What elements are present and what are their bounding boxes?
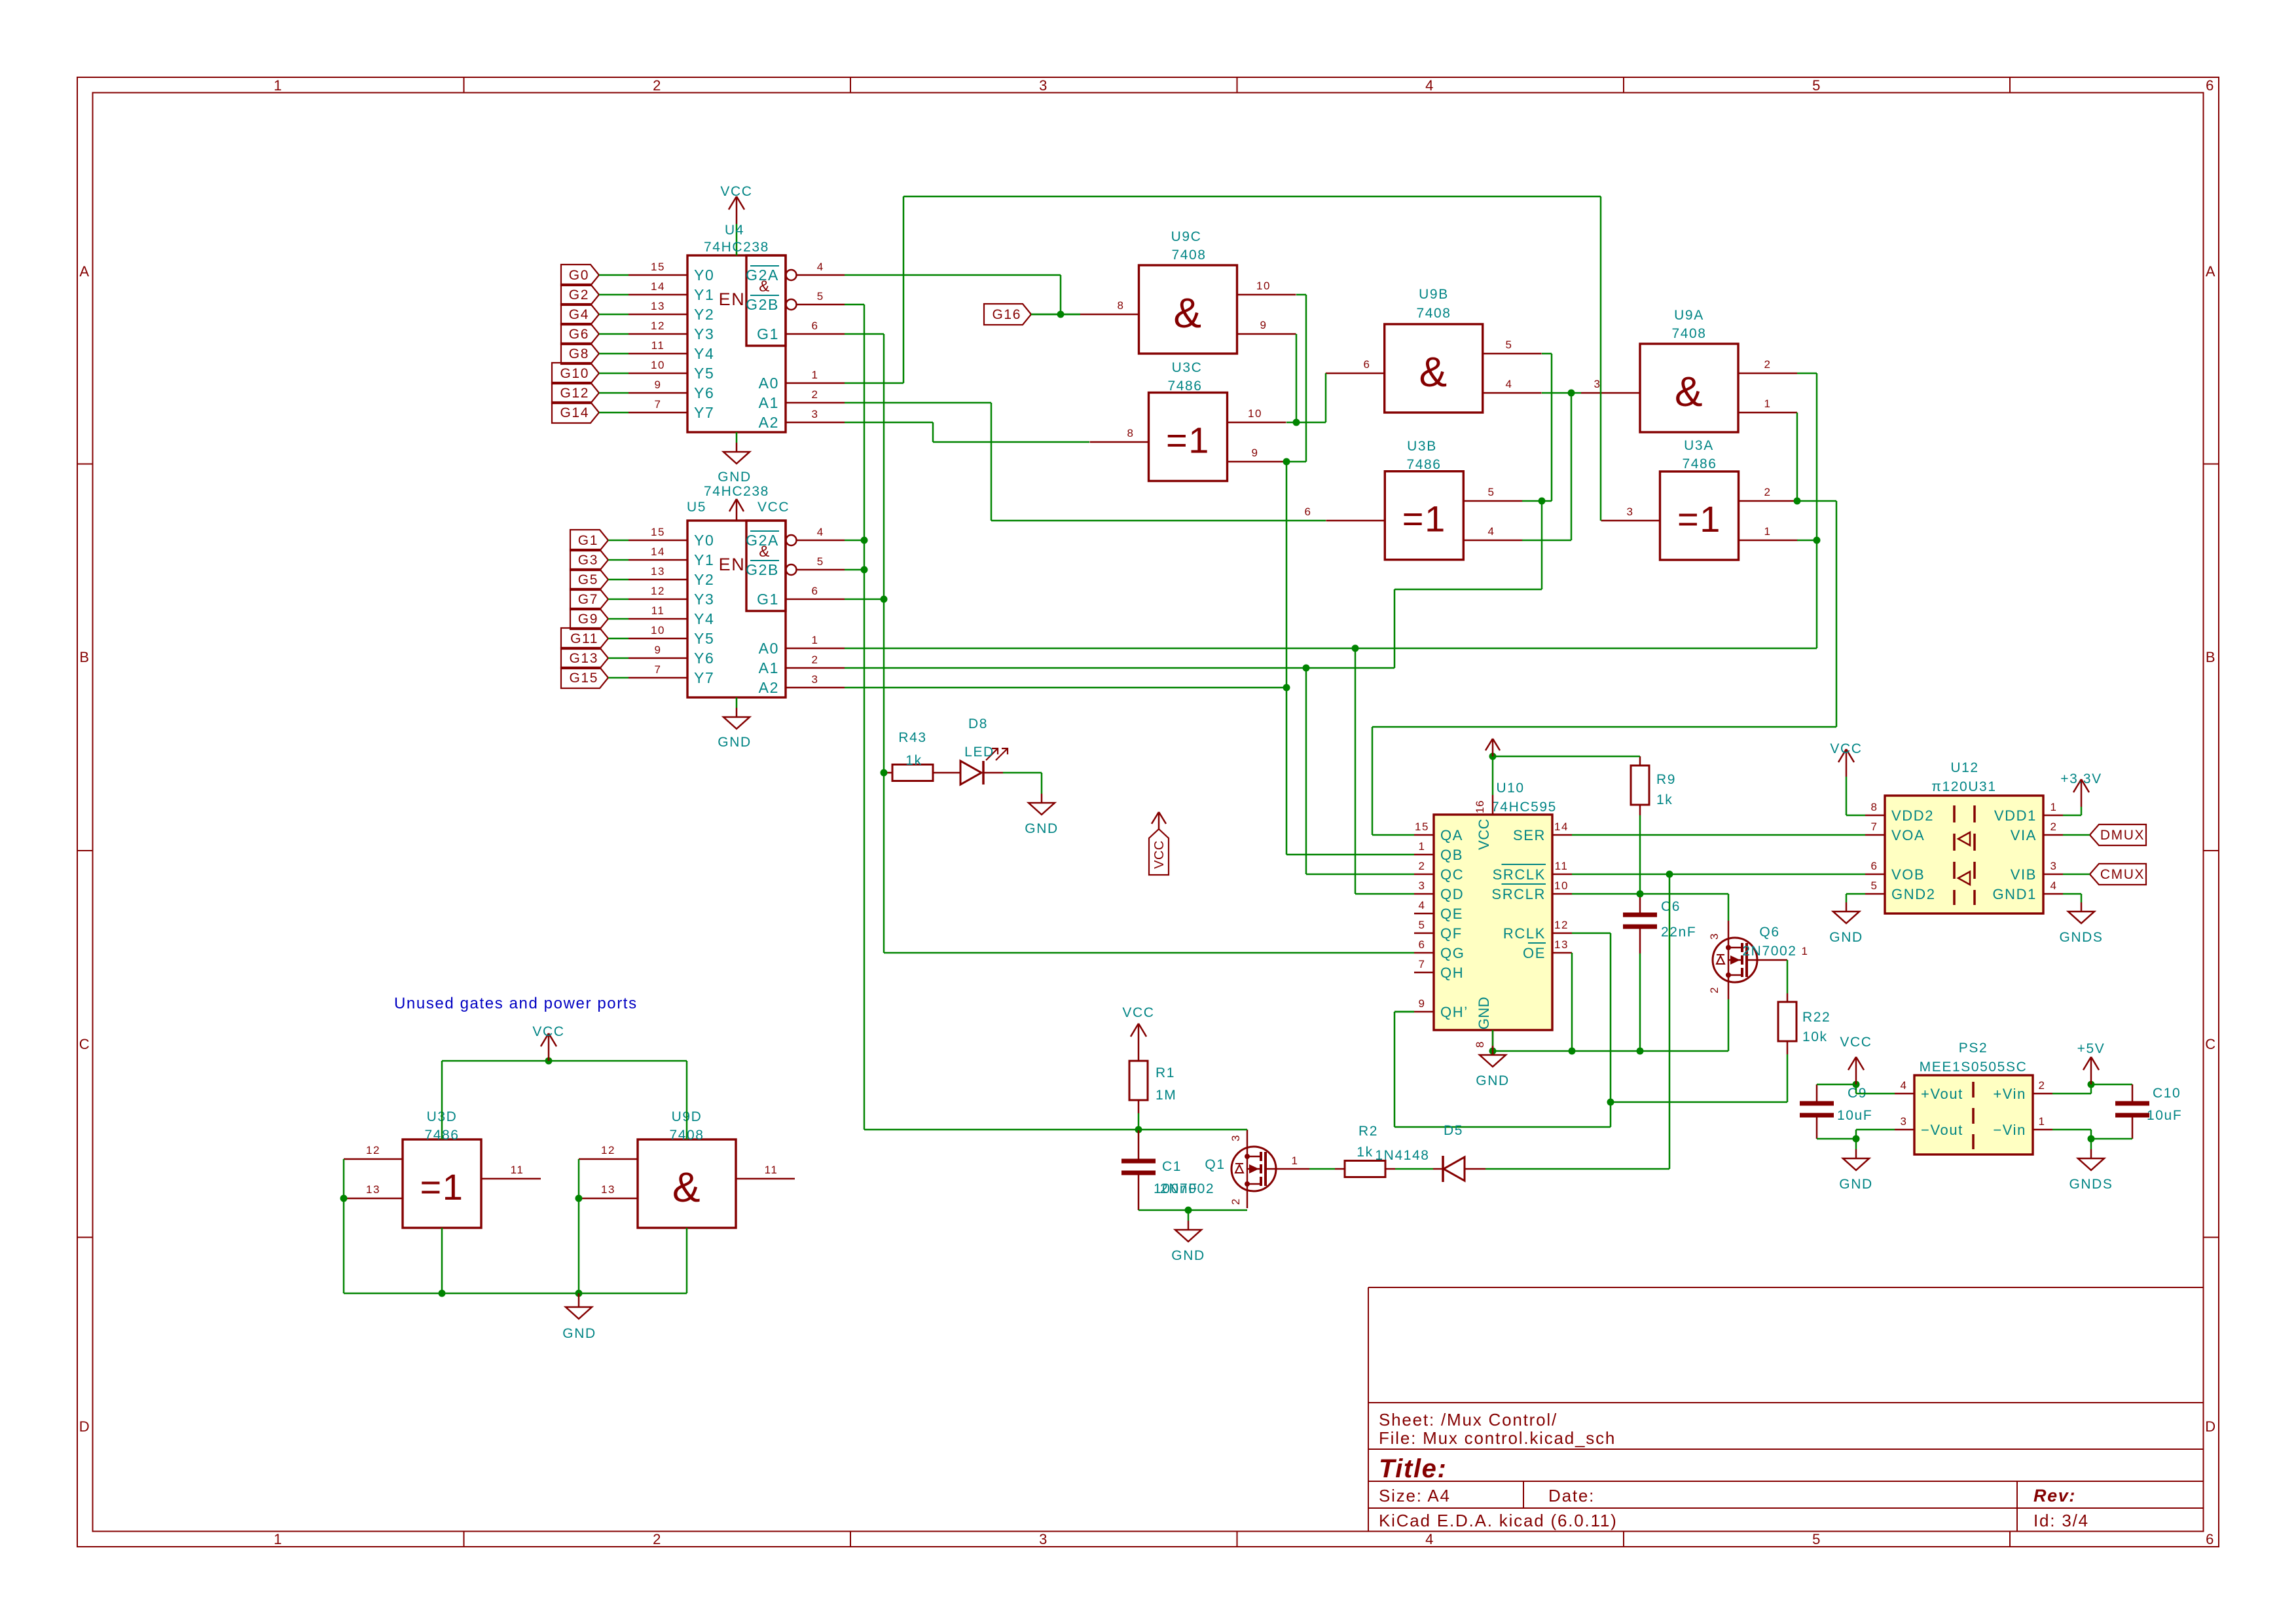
svg-text:EN: EN <box>719 289 746 309</box>
svg-text:4: 4 <box>1418 899 1425 912</box>
svg-text:Y6: Y6 <box>694 384 714 401</box>
svg-text:2: 2 <box>2050 821 2057 833</box>
svg-text:GND: GND <box>1829 930 1863 945</box>
svg-text:C6: C6 <box>1661 899 1681 914</box>
svg-text:G8: G8 <box>569 346 589 361</box>
svg-text:9: 9 <box>1251 447 1258 459</box>
svg-text:6: 6 <box>2206 1531 2215 1547</box>
svg-text:13: 13 <box>601 1183 615 1196</box>
svg-text:16: 16 <box>1474 800 1486 813</box>
wire U4.A2 to U3C.8 <box>845 422 933 424</box>
svg-text:9: 9 <box>654 378 661 391</box>
svg-text:2N7002: 2N7002 <box>1160 1181 1214 1196</box>
gate U9A 7408 <box>1640 344 1738 432</box>
wire <box>2052 1093 2091 1095</box>
ground GND unused gates <box>578 1293 580 1307</box>
wire <box>1817 1138 1856 1140</box>
svg-text:=1: =1 <box>1402 498 1446 540</box>
svg-text:10k: 10k <box>1802 1029 1828 1044</box>
svg-text:Y2: Y2 <box>694 571 714 588</box>
svg-text:G16: G16 <box>993 307 1022 322</box>
power VCC at U4 <box>736 224 738 255</box>
svg-text:4: 4 <box>2050 879 2057 892</box>
svg-text:G11: G11 <box>570 631 598 646</box>
svg-text:SRCLR: SRCLR <box>1491 886 1546 902</box>
svg-text:−Vin: −Vin <box>1993 1122 2026 1138</box>
svg-text:QH’: QH’ <box>1440 1004 1468 1020</box>
svg-text:VCC: VCC <box>720 184 752 199</box>
ground GND at C1/Q1 <box>1188 1210 1190 1221</box>
svg-text:QG: QG <box>1440 945 1465 961</box>
svg-text:9: 9 <box>654 644 661 656</box>
svg-text:1: 1 <box>1418 840 1425 853</box>
svg-text:VOA: VOA <box>1891 827 1925 843</box>
svg-text:6: 6 <box>811 320 818 332</box>
svg-text:U9B: U9B <box>1419 287 1449 302</box>
svg-text:GND: GND <box>1171 1248 1205 1263</box>
svg-text:4: 4 <box>817 526 824 538</box>
svg-text:U3A: U3A <box>1684 438 1714 453</box>
svg-text:2: 2 <box>1418 860 1425 872</box>
svg-text:A: A <box>79 263 90 280</box>
svg-text:G12: G12 <box>560 386 590 401</box>
svg-text:12: 12 <box>601 1144 615 1156</box>
svg-text:&: & <box>1675 368 1704 415</box>
svg-text:2N7002: 2N7002 <box>1742 944 1796 959</box>
svg-text:10: 10 <box>651 624 665 637</box>
svg-text:22nF: 22nF <box>1661 925 1696 940</box>
svg-text:R1: R1 <box>1156 1065 1175 1080</box>
wire U3D inputs tied <box>343 1159 345 1293</box>
svg-text:74HC238: 74HC238 <box>704 484 769 499</box>
svg-text:G15: G15 <box>570 671 599 686</box>
svg-text:GND1: GND1 <box>1992 886 2037 902</box>
svg-text:4: 4 <box>1425 77 1434 94</box>
global label CMUX <box>2090 864 2146 885</box>
svg-text:6: 6 <box>1870 860 1878 872</box>
global label DMUX <box>2090 824 2146 845</box>
svg-text:A2: A2 <box>759 679 779 696</box>
wire U4.G2A to G16/U9C.8 <box>845 274 1061 276</box>
svg-text:8: 8 <box>1474 1041 1486 1048</box>
svg-text:2: 2 <box>653 1531 662 1547</box>
svg-text:G9: G9 <box>578 612 598 627</box>
resistor R43 <box>892 765 933 781</box>
svg-text:Y0: Y0 <box>694 532 714 549</box>
svg-text:+3.3V: +3.3V <box>2060 771 2102 786</box>
svg-text:Y5: Y5 <box>694 630 714 647</box>
svg-text:QE: QE <box>1440 906 1463 922</box>
svg-text:D8: D8 <box>968 716 988 731</box>
svg-text:VCC: VCC <box>757 500 790 515</box>
svg-text:G3: G3 <box>578 553 598 568</box>
svg-text:13: 13 <box>651 300 665 312</box>
svg-text:+Vin: +Vin <box>1993 1086 2026 1102</box>
svg-text:1: 1 <box>1764 525 1771 538</box>
svg-text:Y5: Y5 <box>694 365 714 382</box>
svg-text:MEE1S0505SC: MEE1S0505SC <box>1920 1060 2028 1075</box>
svg-text:5: 5 <box>1487 486 1495 498</box>
svg-text:3: 3 <box>811 673 818 686</box>
wire U3C.9/U9C.10 riser to QB <box>1286 462 1288 855</box>
svg-text:1k: 1k <box>905 753 922 768</box>
hierarchical labels G1-G15 <box>570 530 608 551</box>
wire U3C.10 to U9B.6 <box>1286 422 1296 424</box>
svg-text:G14: G14 <box>560 405 590 420</box>
gate U3B 7486 <box>1385 471 1463 560</box>
svg-text:&: & <box>1173 289 1202 337</box>
wire VCC rail unused gates <box>442 1060 687 1062</box>
svg-text:VCC: VCC <box>1476 819 1492 850</box>
svg-text:Y3: Y3 <box>694 591 714 608</box>
wire U5.G2B stub <box>845 569 864 571</box>
svg-text:U10: U10 <box>1496 781 1524 796</box>
svg-text:5: 5 <box>1870 879 1878 892</box>
wire U4.A0 long top route to U3A.3 <box>845 382 903 384</box>
svg-text:G1: G1 <box>578 533 598 548</box>
svg-text:G13: G13 <box>570 651 599 666</box>
svg-text:13: 13 <box>1554 938 1569 951</box>
svg-text:&: & <box>1419 348 1448 396</box>
svg-text:QD: QD <box>1440 886 1464 902</box>
svg-text:3: 3 <box>1626 506 1633 518</box>
wire RCLK to junction <box>1572 932 1611 934</box>
svg-text:A: A <box>2206 263 2216 280</box>
svg-text:KiCad E.D.A. kicad (6.0.11): KiCad E.D.A. kicad (6.0.11) <box>1379 1511 1618 1530</box>
svg-text:G2: G2 <box>569 287 589 303</box>
power VCC for U12 <box>1846 815 1865 817</box>
diode D5 1N4148 <box>1442 1156 1444 1182</box>
svg-text:14: 14 <box>651 545 665 558</box>
power VCC at U5 (short) <box>736 499 738 521</box>
svg-text:6: 6 <box>1304 506 1311 518</box>
wire QD riser <box>1355 648 1357 894</box>
svg-text:1N4148: 1N4148 <box>1375 1148 1429 1163</box>
svg-text:Y7: Y7 <box>694 669 714 686</box>
svg-text:7486: 7486 <box>1406 457 1441 472</box>
svg-text:9: 9 <box>1260 319 1267 331</box>
power VCC unused <box>548 1033 550 1061</box>
svg-text:11: 11 <box>511 1164 524 1176</box>
svg-text:8: 8 <box>1117 299 1124 312</box>
svg-text:10: 10 <box>651 359 665 371</box>
svg-text:LED: LED <box>964 745 994 760</box>
svg-text:&: & <box>759 278 771 295</box>
svg-text:Q1: Q1 <box>1205 1157 1225 1172</box>
resistor R9 <box>1631 766 1649 805</box>
svg-text:B: B <box>79 649 90 665</box>
svg-text:2: 2 <box>1230 1198 1242 1205</box>
wire <box>1817 1084 1856 1086</box>
gate U9B 7408 <box>1385 324 1483 413</box>
svg-text:C1: C1 <box>1162 1159 1182 1174</box>
svg-text:6: 6 <box>1418 938 1425 951</box>
svg-text:1k: 1k <box>1656 792 1673 807</box>
svg-text:GND: GND <box>1839 1177 1872 1192</box>
wire SER row U10 to U12.VOA <box>1572 834 1865 836</box>
svg-text:OE: OE <box>1523 945 1546 961</box>
svg-text:74HC238: 74HC238 <box>704 240 769 255</box>
svg-text:6: 6 <box>1363 358 1370 371</box>
svg-text:Sheet: /Mux Control/: Sheet: /Mux Control/ <box>1379 1410 1558 1430</box>
power VCC at PS2 <box>1855 1057 1857 1084</box>
svg-text:7486: 7486 <box>1682 456 1717 471</box>
svg-text:4: 4 <box>1425 1531 1434 1547</box>
svg-text:5: 5 <box>817 290 824 303</box>
svg-text:EN: EN <box>719 555 746 574</box>
svg-text:D: D <box>79 1418 91 1435</box>
svg-text:VDD1: VDD1 <box>1994 807 2037 824</box>
svg-text:Title:: Title: <box>1379 1454 1447 1483</box>
svg-text:R43: R43 <box>898 730 926 745</box>
svg-text:11: 11 <box>651 604 665 617</box>
svg-text:SER: SER <box>1513 827 1546 843</box>
svg-text:6: 6 <box>2206 77 2215 94</box>
svg-text:A2: A2 <box>759 414 779 431</box>
svg-text:SRCLK: SRCLK <box>1493 866 1546 883</box>
svg-text:C10: C10 <box>2153 1086 2181 1101</box>
svg-text:7: 7 <box>654 663 661 676</box>
svg-text:C: C <box>2205 1036 2217 1052</box>
wire <box>1728 894 1730 921</box>
svg-text:GNDS: GNDS <box>2069 1177 2113 1192</box>
svg-text:2: 2 <box>2038 1079 2045 1092</box>
wire U10 VCC pin16 to R9 top <box>1492 756 1494 795</box>
svg-text:File: Mux control.kicad_sch: File: Mux control.kicad_sch <box>1379 1428 1616 1448</box>
wire U5.A0 row 990 to U3A.1 <box>845 648 1817 650</box>
wire GND row under U10 <box>1493 1050 1728 1052</box>
wire U4.G2B down (net to U5.G2A/G2B, R1, Q1 drain) <box>845 304 864 306</box>
svg-text:13: 13 <box>366 1183 380 1196</box>
wire U9B.5 to U3B.5 <box>1542 353 1552 355</box>
svg-text:1: 1 <box>811 369 818 381</box>
wire U4.G1 down to U5.G1, R43, QG <box>845 333 884 335</box>
svg-text:Q6: Q6 <box>1759 925 1779 940</box>
svg-text:G0: G0 <box>569 268 589 283</box>
global label VCC with power arrow <box>1149 829 1169 875</box>
svg-text:G7: G7 <box>578 592 598 607</box>
svg-text:1: 1 <box>2050 801 2057 813</box>
wire SRCLK row to U12.VOB <box>1572 874 1865 876</box>
svg-text:GND: GND <box>718 470 751 485</box>
wire U5.G1 stub <box>845 599 884 600</box>
svg-text:3: 3 <box>811 408 818 420</box>
svg-text:−Vout: −Vout <box>1921 1122 1963 1138</box>
svg-text:10uF: 10uF <box>2147 1108 2182 1123</box>
svg-text:1: 1 <box>1801 945 1808 957</box>
ground GNDS (GND1) <box>2063 893 2081 895</box>
svg-text:3: 3 <box>1039 1531 1048 1547</box>
wire QH prime <box>1394 1011 1414 1013</box>
svg-text:5: 5 <box>817 555 824 568</box>
svg-text:11: 11 <box>651 339 665 352</box>
svg-text:3: 3 <box>1418 879 1425 892</box>
svg-text:VCC: VCC <box>1152 840 1167 869</box>
wire U9C.10 to U3C.9 <box>1296 294 1306 296</box>
svg-text:14: 14 <box>1554 821 1569 833</box>
svg-text:5: 5 <box>1505 339 1512 351</box>
svg-text:5: 5 <box>1418 919 1425 931</box>
svg-text:2: 2 <box>811 388 818 401</box>
svg-text:Unused gates and power ports: Unused gates and power ports <box>394 995 638 1012</box>
svg-text:U12: U12 <box>1950 760 1978 775</box>
svg-text:2: 2 <box>1764 486 1771 498</box>
wire <box>1395 1168 1433 1170</box>
svg-text:VOB: VOB <box>1891 866 1925 883</box>
gate U3D 7486 <box>403 1139 481 1228</box>
svg-text:15: 15 <box>651 261 665 273</box>
svg-text:=1: =1 <box>420 1166 464 1208</box>
svg-text:VCC: VCC <box>1840 1035 1872 1050</box>
svg-text:2: 2 <box>653 77 662 94</box>
svg-text:1: 1 <box>2038 1115 2045 1128</box>
IC U4 74HC238 <box>687 255 786 432</box>
ground GND at U10 <box>1492 1046 1494 1055</box>
wire <box>2052 1129 2091 1131</box>
IC U12 isolator <box>1885 796 2043 913</box>
capacitor C9 <box>1800 1101 1834 1106</box>
svg-text:G2B: G2B <box>746 296 779 313</box>
transistor Q6 2N7002 <box>1713 938 1757 982</box>
svg-text:VIA: VIA <box>2011 827 2037 843</box>
svg-text:QH: QH <box>1440 965 1464 981</box>
svg-text:Y7: Y7 <box>694 404 714 421</box>
svg-text:GND: GND <box>1476 1073 1509 1088</box>
wire <box>1003 772 1042 774</box>
svg-text:PS2: PS2 <box>1959 1041 1988 1056</box>
svg-text:1: 1 <box>1764 397 1771 410</box>
svg-text:=1: =1 <box>1677 498 1721 540</box>
svg-text:7408: 7408 <box>1671 326 1706 341</box>
svg-text:14: 14 <box>651 280 665 293</box>
svg-text:1: 1 <box>274 77 283 94</box>
svg-text:3: 3 <box>1039 77 1048 94</box>
svg-text:GND: GND <box>1025 821 1058 836</box>
svg-text:GND: GND <box>562 1326 596 1341</box>
svg-text:Id: 3/4: Id: 3/4 <box>2033 1511 2089 1530</box>
svg-text:VCC: VCC <box>532 1024 564 1039</box>
svg-text:2: 2 <box>1708 987 1721 993</box>
svg-text:10: 10 <box>1248 407 1262 420</box>
svg-text:7: 7 <box>1870 821 1878 833</box>
wire U9D GND <box>686 1228 688 1293</box>
svg-text:G10: G10 <box>560 366 590 381</box>
svg-text:U9C: U9C <box>1171 229 1202 244</box>
svg-text:10uF: 10uF <box>1837 1108 1872 1123</box>
svg-text:10: 10 <box>1256 280 1271 292</box>
wire <box>864 1129 1139 1131</box>
svg-text:15: 15 <box>651 526 665 538</box>
svg-text:1M: 1M <box>1156 1088 1176 1103</box>
svg-text:9: 9 <box>1418 997 1425 1010</box>
svg-text:A1: A1 <box>759 394 779 411</box>
svg-text:DMUX: DMUX <box>2100 828 2145 843</box>
svg-text:+5V: +5V <box>2077 1041 2105 1056</box>
wire <box>1287 1168 1309 1170</box>
wire G16 junction to U9C pin8 <box>1031 314 1080 316</box>
wire U4.A1 to U3B.6 <box>845 402 991 404</box>
svg-text:GND: GND <box>718 735 751 750</box>
power VCC at R1 <box>1138 1024 1140 1051</box>
ground GNDS at PS2 <box>2090 1139 2092 1149</box>
svg-text:QA: QA <box>1440 827 1463 843</box>
svg-text:Y2: Y2 <box>694 306 714 323</box>
wire U9C.9 down to U3C.10 <box>1296 334 1298 422</box>
svg-text:12: 12 <box>1554 919 1569 931</box>
resistor R1 <box>1129 1061 1148 1100</box>
svg-text:2: 2 <box>1764 358 1771 371</box>
svg-text:Y1: Y1 <box>694 551 714 568</box>
svg-text:Size: A4: Size: A4 <box>1379 1486 1451 1505</box>
svg-text:QC: QC <box>1440 866 1464 883</box>
svg-text:G2B: G2B <box>746 561 779 578</box>
svg-text:4: 4 <box>817 261 824 273</box>
svg-text:3: 3 <box>1708 933 1721 940</box>
svg-text:+Vout: +Vout <box>1921 1086 1963 1102</box>
wire R9 bottom to SRCLR <box>1639 815 1641 894</box>
svg-text:D: D <box>2205 1418 2217 1435</box>
svg-text:A0: A0 <box>759 640 779 657</box>
svg-text:RCLK: RCLK <box>1503 925 1546 942</box>
svg-text:&: & <box>672 1164 701 1211</box>
svg-text:Y0: Y0 <box>694 267 714 284</box>
wire <box>1485 1168 1669 1170</box>
svg-text:12: 12 <box>366 1144 380 1156</box>
resistor R2 <box>1345 1161 1385 1177</box>
svg-text:7408: 7408 <box>1416 306 1451 321</box>
power +3.3V <box>2063 815 2081 817</box>
svg-text:3: 3 <box>1230 1135 1242 1141</box>
wire U9B.4 to U9A.3 and U3B.4 <box>1542 392 1581 394</box>
svg-text:=1: =1 <box>1166 420 1210 461</box>
capacitor C10 <box>2115 1101 2149 1106</box>
gate U3C 7486 <box>1149 393 1228 481</box>
svg-text:VDD2: VDD2 <box>1891 807 1934 824</box>
svg-text:VIB: VIB <box>2011 866 2037 883</box>
wire to U9D VCC <box>686 1061 688 1139</box>
wire SRCLR row to R9/C6 and Q6 drain <box>1572 893 1728 895</box>
svg-text:11: 11 <box>765 1164 778 1176</box>
svg-text:74HC595: 74HC595 <box>1491 800 1557 815</box>
svg-text:11: 11 <box>1555 860 1569 872</box>
svg-text:1: 1 <box>274 1531 283 1547</box>
gate U9D 7408 <box>638 1139 736 1228</box>
svg-text:π120U31: π120U31 <box>1931 779 1996 794</box>
svg-text:4: 4 <box>1505 378 1512 390</box>
svg-text:CMUX: CMUX <box>2100 867 2145 882</box>
svg-text:13: 13 <box>651 565 665 578</box>
svg-text:QF: QF <box>1440 925 1463 942</box>
power VCC at U10 pin16 <box>1492 739 1494 756</box>
svg-text:7408: 7408 <box>1171 248 1206 263</box>
capacitor C6 <box>1623 913 1657 917</box>
svg-text:U3C: U3C <box>1172 360 1203 375</box>
svg-text:Y6: Y6 <box>694 650 714 667</box>
title block <box>1368 1287 2204 1288</box>
svg-text:C: C <box>79 1036 91 1052</box>
svg-text:Y4: Y4 <box>694 610 714 627</box>
IC U5 74HC238 <box>687 521 786 697</box>
svg-text:10: 10 <box>1554 879 1569 892</box>
svg-text:U4: U4 <box>725 223 744 238</box>
resistor R22 <box>1778 1002 1796 1041</box>
wire U10 pin8 <box>1492 1030 1494 1051</box>
IC U10 74HC595 <box>1434 815 1552 1030</box>
svg-text:3: 3 <box>1900 1115 1907 1128</box>
svg-text:Date:: Date: <box>1548 1486 1595 1505</box>
svg-text:G6: G6 <box>569 327 589 342</box>
svg-text:15: 15 <box>1415 821 1429 833</box>
